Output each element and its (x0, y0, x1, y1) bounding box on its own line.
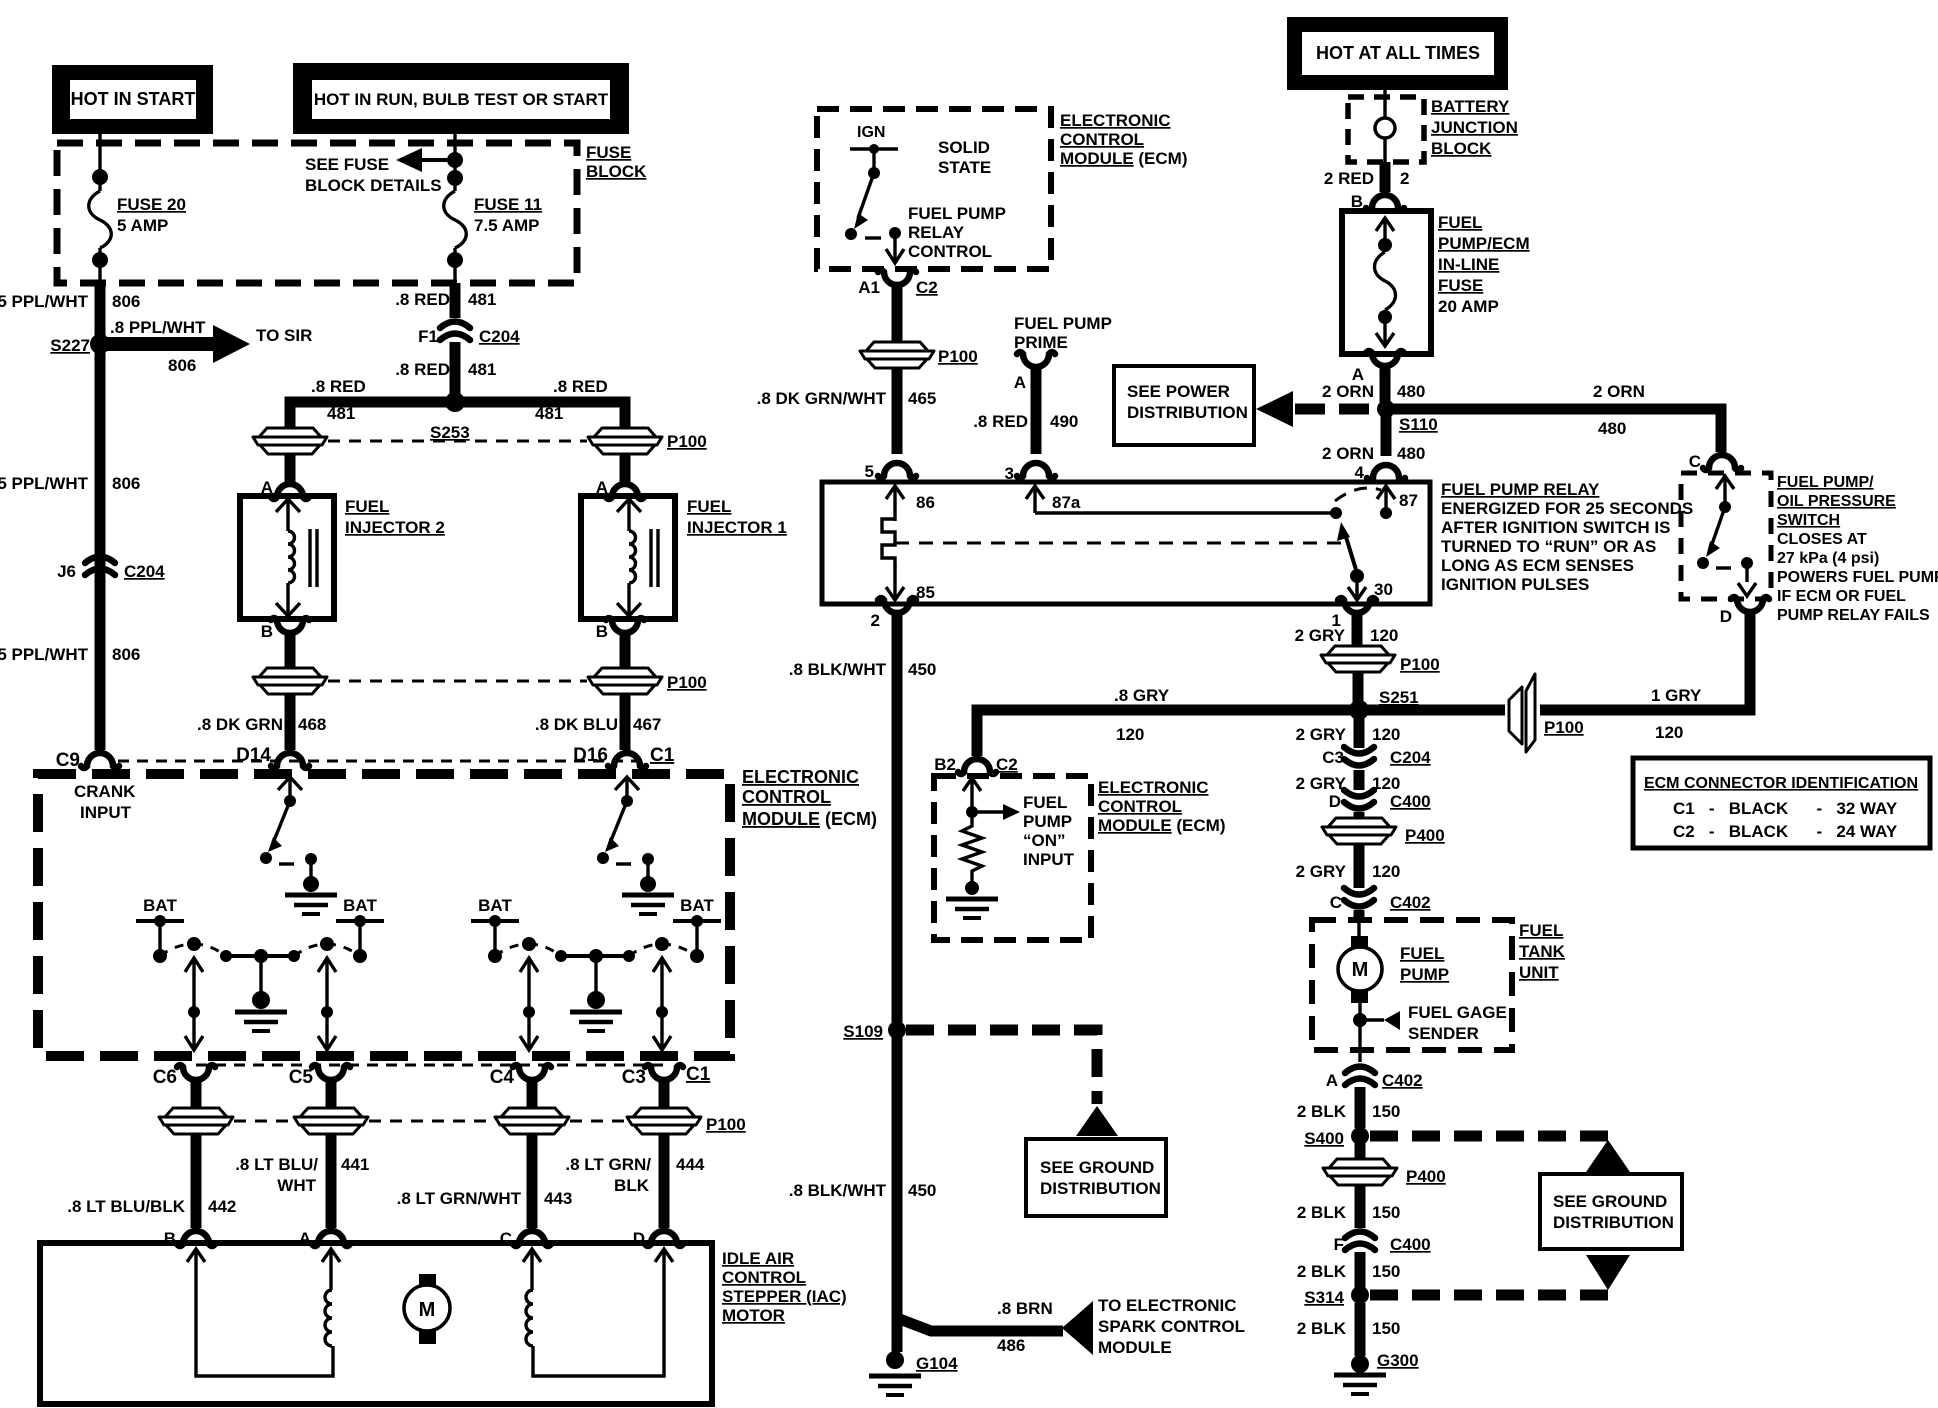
svg-text:27 kPa (4 psi): 27 kPa (4 psi) (1777, 550, 1879, 567)
wire .8 LT BLU/WHT 441 (326, 1134, 337, 1228)
see power distribution box (1114, 366, 1254, 445)
svg-text:2 GRY: 2 GRY (1296, 725, 1347, 744)
wire 2 BLK 150 (1355, 1087, 1366, 1128)
svg-text:C400: C400 (1390, 792, 1431, 811)
wire 2 BLK 150 (1355, 1252, 1366, 1288)
svg-text:SWITCH: SWITCH (1777, 512, 1840, 529)
IGN switch inside ECM (845, 124, 904, 263)
svg-text:TO ELECTRONIC: TO ELECTRONIC (1098, 1296, 1237, 1315)
see ground distribution box right (1540, 1174, 1682, 1249)
svg-text:5: 5 (865, 462, 874, 481)
svg-text:M: M (419, 1299, 436, 1321)
ground G104 (886, 1351, 904, 1369)
svg-text:806: 806 (112, 474, 140, 493)
BAT terminal 4 (673, 896, 721, 963)
bulkhead connector P100 vertical (1509, 674, 1584, 752)
svg-text:2 GRY: 2 GRY (1296, 862, 1347, 881)
svg-text:MODULE: MODULE (1098, 1338, 1172, 1357)
svg-text:.8 PPL/WHT: .8 PPL/WHT (110, 318, 206, 337)
svg-text:SPARK CONTROL: SPARK CONTROL (1098, 1317, 1245, 1336)
label FUSE BLOCK (586, 143, 647, 181)
fuel pump motor (1338, 922, 1382, 1003)
svg-text:120: 120 (1372, 725, 1400, 744)
svg-text:.8 RED: .8 RED (553, 377, 608, 396)
wire S253 horizontal (290, 402, 625, 430)
splice S314 (1351, 1286, 1369, 1304)
fuel pump relay box (822, 482, 1430, 604)
oil pressure switch contacts (1697, 476, 1756, 596)
svg-text:.8 LT BLU/: .8 LT BLU/ (235, 1155, 318, 1174)
wire 2 RED 2 (1380, 162, 1391, 192)
svg-text:P400: P400 (1406, 1167, 1446, 1186)
wire pin 1 to P100 (1352, 632, 1363, 646)
svg-text:.8 BLK/WHT: .8 BLK/WHT (789, 660, 887, 679)
svg-text:443: 443 (544, 1189, 572, 1208)
svg-text:UNIT: UNIT (1519, 963, 1559, 982)
svg-text:C400: C400 (1390, 1235, 1431, 1254)
bulkhead connector P100 pin 1 (1321, 646, 1395, 672)
wire .8 DK GRN/WHT 465 (892, 368, 903, 454)
svg-text:FUEL: FUEL (1438, 213, 1482, 232)
svg-text:LONG AS ECM SENSES: LONG AS ECM SENSES (1441, 556, 1634, 575)
svg-text:2 ORN: 2 ORN (1322, 382, 1374, 401)
svg-text:D16: D16 (573, 745, 608, 766)
ECM crank input dashed box (38, 774, 730, 1056)
pin C3 (645, 1065, 683, 1099)
see fuse block details arrow (420, 158, 455, 162)
svg-text:ELECTRONIC: ELECTRONIC (1060, 111, 1171, 130)
ground injector 1 driver (622, 895, 674, 914)
svg-text:FUEL PUMP: FUEL PUMP (908, 204, 1006, 223)
dashed wire S314 to ground distribution (1370, 1290, 1608, 1301)
svg-text:SEE FUSE: SEE FUSE (305, 155, 389, 174)
svg-text:C2: C2 (916, 278, 938, 297)
svg-text:POWERS FUEL PUMP: POWERS FUEL PUMP (1777, 569, 1938, 586)
svg-text:CONTROL: CONTROL (908, 242, 992, 261)
svg-text:806: 806 (112, 645, 140, 664)
svg-text:2 BLK: 2 BLK (1297, 1203, 1347, 1222)
pin C9 (81, 753, 119, 768)
svg-text:FUSE 20: FUSE 20 (117, 195, 186, 214)
svg-text:2: 2 (871, 611, 880, 630)
svg-text:FUEL PUMP/: FUEL PUMP/ (1777, 474, 1874, 491)
pin row dashed line bottom (196, 1064, 664, 1067)
svg-text:DISTRIBUTION: DISTRIBUTION (1040, 1179, 1161, 1198)
relay pin 87a branch (1026, 486, 1342, 519)
svg-text:D: D (1720, 607, 1732, 626)
svg-text:481: 481 (327, 404, 355, 423)
svg-text:PUMP/ECM: PUMP/ECM (1438, 234, 1530, 253)
svg-text:D: D (1329, 792, 1341, 811)
svg-text:SEE GROUND: SEE GROUND (1553, 1192, 1667, 1211)
bulkhead connector P100 right branch (588, 428, 662, 454)
svg-text:450: 450 (908, 660, 936, 679)
fuel injector 1 (581, 496, 675, 619)
svg-text:C: C (1330, 893, 1342, 912)
svg-text:S110: S110 (1399, 415, 1438, 434)
label FUEL PUMP/OIL PRESSURE SWITCH text (1777, 474, 1938, 624)
relay pin 1 (1338, 598, 1376, 632)
svg-text:F1: F1 (418, 327, 438, 346)
svg-text:CRANK: CRANK (74, 782, 136, 801)
bulkhead row P100 C4 (495, 1108, 569, 1134)
svg-text:1 GRY: 1 GRY (1651, 686, 1702, 705)
svg-text:P100: P100 (706, 1115, 746, 1134)
svg-text:P100: P100 (1544, 718, 1584, 737)
battery junction block dashed box (1348, 90, 1424, 162)
svg-text:S109: S109 (843, 1022, 883, 1041)
arrow up to see ground distribution right (1586, 1140, 1630, 1172)
oil switch pin D (1731, 597, 1769, 631)
header box HOT IN START (52, 65, 213, 134)
svg-text:.5 PPL/WHT: .5 PPL/WHT (0, 292, 89, 311)
svg-text:C: C (1689, 452, 1701, 471)
bulkhead connector P100 left branch (253, 428, 327, 454)
svg-text:C402: C402 (1390, 893, 1431, 912)
svg-text:450: 450 (908, 1181, 936, 1200)
svg-text:OIL PRESSURE: OIL PRESSURE (1777, 493, 1896, 510)
svg-text:P100: P100 (938, 347, 978, 366)
svg-text:D14: D14 (236, 745, 271, 766)
ground fuel pump on input (946, 899, 998, 918)
svg-text:FUEL PUMP: FUEL PUMP (1014, 314, 1112, 333)
svg-text:ECM CONNECTOR IDENTIFICATION: ECM CONNECTOR IDENTIFICATION (1644, 775, 1918, 792)
svg-text:.8 GRY: .8 GRY (1114, 686, 1170, 705)
wire 2 BLK 150 to G300 (1355, 1303, 1366, 1356)
oil switch pin C (1703, 455, 1741, 470)
wire from HOT IN RUN through fuse 11 (453, 134, 456, 191)
svg-text:MOTOR: MOTOR (722, 1306, 785, 1325)
svg-text:CONTROL: CONTROL (1060, 130, 1144, 149)
svg-text:FUEL: FUEL (687, 497, 731, 516)
splice S253 (445, 392, 465, 412)
BAT terminal 3 (471, 896, 519, 963)
relay pin 5 (878, 463, 916, 478)
svg-text:S400: S400 (1304, 1129, 1344, 1148)
injector 2 driver switch (260, 777, 319, 892)
coil drive line C5 (318, 958, 336, 1050)
svg-text:86: 86 (916, 493, 935, 512)
fuse F11 element (444, 191, 467, 248)
svg-text:C1: C1 (686, 1064, 711, 1085)
svg-text:87: 87 (1399, 491, 1418, 510)
svg-text:2 RED: 2 RED (1324, 169, 1374, 188)
svg-text:C204: C204 (1390, 748, 1431, 767)
svg-text:S253: S253 (430, 423, 470, 442)
svg-text:.8 LT BLU/BLK: .8 LT BLU/BLK (67, 1197, 185, 1216)
bulkhead connector P100 injector 2 (253, 668, 327, 694)
svg-text:G104: G104 (916, 1354, 958, 1373)
wire .8 DK BLU 467 (620, 694, 631, 750)
svg-text:BATTERY: BATTERY (1431, 97, 1510, 116)
svg-text:FUSE 11: FUSE 11 (474, 195, 542, 214)
bulkhead row P100 C3 (627, 1108, 701, 1134)
svg-text:P100: P100 (667, 432, 707, 451)
splice S227 (90, 334, 110, 354)
svg-text:480: 480 (1598, 419, 1626, 438)
relay actuation dashed line (895, 542, 1341, 545)
injector 1 pin B (606, 618, 644, 652)
wire .8 GRY 120 horizontal (977, 710, 1354, 756)
svg-text:444: 444 (676, 1155, 705, 1174)
svg-text:150: 150 (1372, 1262, 1400, 1281)
wire 2 GRY 120 (1354, 770, 1365, 790)
wire arrow TO SIR (106, 337, 214, 351)
wire .8 LT GRN/BLK 444 (659, 1134, 670, 1228)
ground injector 2 driver (285, 895, 337, 914)
svg-text:G300: G300 (1377, 1351, 1419, 1370)
splice S109 (888, 1021, 906, 1039)
svg-text:2 ORN: 2 ORN (1593, 382, 1645, 401)
wire pin 2 to G104 (892, 630, 903, 1352)
connector C C402 (1344, 888, 1374, 907)
IAC pin A (312, 1231, 350, 1246)
svg-text:2 GRY: 2 GRY (1295, 626, 1346, 645)
svg-text:.8 RED: .8 RED (395, 290, 450, 309)
svg-text:C6: C6 (153, 1067, 177, 1088)
splice S110 (1377, 400, 1395, 418)
fuel tank unit dashed box (1312, 920, 1512, 1050)
svg-text:20 AMP: 20 AMP (1438, 297, 1499, 316)
svg-text:4: 4 (1355, 463, 1365, 482)
IAC winding B-A (187, 1249, 340, 1376)
relay switch arm pin 30 (1337, 522, 1393, 600)
svg-text:INJECTOR 2: INJECTOR 2 (345, 518, 445, 537)
svg-text:A: A (1014, 373, 1026, 392)
connector F1 C204 (450, 283, 461, 318)
stepper commutator left: dashed arcs and bar (160, 937, 360, 1009)
relay pin 87 contact (1335, 486, 1418, 519)
svg-text:TO SIR: TO SIR (256, 326, 312, 345)
svg-text:C1: C1 (650, 745, 675, 766)
svg-text:CONTROL: CONTROL (722, 1268, 806, 1287)
svg-text:HOT AT ALL TIMES: HOT AT ALL TIMES (1316, 43, 1480, 63)
svg-text:.5 PPL/WHT: .5 PPL/WHT (0, 474, 89, 493)
dashed wire S400 to ground distribution (1370, 1131, 1608, 1142)
svg-text:442: 442 (208, 1197, 236, 1216)
svg-text:481: 481 (535, 404, 563, 423)
injector 2 pin B (271, 618, 309, 652)
svg-text:DISTRIBUTION: DISTRIBUTION (1553, 1213, 1674, 1232)
IAC pin D (645, 1231, 683, 1246)
ECM fuel pump on input dashed box (934, 776, 1091, 940)
svg-text:.8 RED: .8 RED (311, 377, 366, 396)
IAC winding C-D (523, 1249, 673, 1376)
svg-text:INPUT: INPUT (1023, 850, 1075, 869)
label FUEL PUMP RELAY text block (1441, 480, 1693, 594)
svg-text:PUMP RELAY FAILS: PUMP RELAY FAILS (1777, 607, 1930, 624)
svg-text:FUEL: FUEL (1023, 793, 1067, 812)
pin A1 connector C2 (878, 270, 916, 304)
svg-text:ELECTRONIC: ELECTRONIC (1098, 778, 1209, 797)
svg-text:7.5 AMP: 7.5 AMP (474, 216, 540, 235)
wire .8 BRN 486 branch (897, 1318, 1063, 1331)
svg-text:B: B (261, 622, 273, 641)
fuel pump/ECM in-line fuse box (1342, 211, 1431, 354)
relay pin 86 and coil (882, 486, 935, 602)
BAT terminal 1 (136, 896, 184, 963)
label ELECTRONIC CONTROL MODULE (ECM) top (1060, 111, 1188, 168)
svg-text:.8 BRN: .8 BRN (997, 1299, 1053, 1318)
svg-text:C5: C5 (289, 1067, 314, 1088)
injector 1 driver switch (597, 777, 656, 892)
dashed wire S109 to ground distribution (906, 1030, 1097, 1104)
svg-text:P100: P100 (1400, 655, 1440, 674)
svg-text:SENDER: SENDER (1408, 1024, 1479, 1043)
fuel pump/oil pressure switch dashed box (1681, 473, 1771, 599)
svg-text:BAT: BAT (478, 896, 512, 915)
connector C3 C204 (1344, 747, 1374, 766)
svg-text:806: 806 (168, 356, 196, 375)
IAC pin B (177, 1231, 215, 1246)
see ground distribution box middle (1026, 1139, 1166, 1216)
svg-text:481: 481 (468, 360, 496, 379)
svg-text:480: 480 (1397, 382, 1425, 401)
svg-text:FUEL: FUEL (345, 497, 389, 516)
wire .5 PPL/WHT 806 left column (95, 283, 106, 750)
svg-text:C204: C204 (124, 562, 165, 581)
svg-text:FUEL: FUEL (1400, 944, 1444, 963)
ground commutator right (570, 1012, 622, 1031)
svg-text:IGNITION PULSES: IGNITION PULSES (1441, 575, 1589, 594)
svg-text:C3: C3 (1322, 748, 1344, 767)
wire 1 GRY 120 from oil switch (1542, 625, 1750, 710)
svg-text:BLK: BLK (614, 1176, 650, 1195)
svg-text:.8 LT GRN/WHT: .8 LT GRN/WHT (397, 1189, 522, 1208)
svg-text:FUEL PUMP RELAY: FUEL PUMP RELAY (1441, 480, 1600, 499)
svg-text:J6: J6 (57, 562, 76, 581)
wire A1 to P100 (892, 298, 903, 342)
IAC pin C (513, 1231, 551, 1246)
coil drive line C4 (520, 958, 538, 1050)
label FUEL TANK UNIT (1519, 921, 1566, 982)
label ELECTRONIC CONTROL MODULE (ECM) right (1098, 778, 1226, 835)
svg-text:FUSE: FUSE (1438, 276, 1483, 295)
svg-text:2 ORN: 2 ORN (1322, 444, 1374, 463)
wire to injector 1 pin A (620, 454, 631, 482)
svg-text:150: 150 (1372, 1203, 1400, 1222)
label IDLE AIR CONTROL STEPPER (IAC) MOTOR (722, 1249, 847, 1325)
svg-text:87a: 87a (1052, 493, 1081, 512)
svg-text:BAT: BAT (143, 896, 177, 915)
wire from HOT IN START through fuse 20 (98, 134, 101, 191)
relay pin 2 (878, 598, 916, 632)
svg-text:M: M (1352, 959, 1369, 981)
svg-text:2 BLK: 2 BLK (1297, 1262, 1347, 1281)
connector D C400 (1344, 790, 1374, 809)
pin D14 (271, 753, 309, 768)
pin C5 (312, 1065, 350, 1099)
svg-text:STATE: STATE (938, 158, 991, 177)
bulkhead connector P100 (860, 342, 934, 368)
svg-text:MODULE (ECM): MODULE (ECM) (1060, 149, 1188, 168)
svg-text:TANK: TANK (1519, 942, 1566, 961)
wire .8 LT BLU/BLK 442 (191, 1134, 202, 1228)
svg-text:IDLE AIR: IDLE AIR (722, 1249, 794, 1268)
pin D16 (608, 753, 646, 768)
wire 2 GRY 120 (1354, 844, 1365, 888)
ECM fuel pump relay control dashed box (817, 109, 1051, 269)
svg-text:.8 DK GRN/WHT: .8 DK GRN/WHT (757, 389, 887, 408)
splice S251 (1349, 700, 1369, 720)
label BATTERY JUNCTION BLOCK (1431, 97, 1518, 158)
ECM connector identification box (1633, 758, 1930, 848)
svg-text:INPUT: INPUT (80, 803, 132, 822)
svg-text:CLOSES AT: CLOSES AT (1777, 531, 1867, 548)
bulkhead row P100 C5 (294, 1108, 368, 1134)
bulkhead connector P400 lower (1355, 1143, 1366, 1160)
wire 2 ORN 480 to oil pressure switch (1393, 409, 1721, 452)
wire to splice S253 (450, 342, 461, 402)
svg-text:JUNCTION: JUNCTION (1431, 118, 1518, 137)
svg-text:P100: P100 (667, 673, 707, 692)
svg-text:FUSE: FUSE (586, 143, 631, 162)
svg-text:STEPPER (IAC): STEPPER (IAC) (722, 1287, 847, 1306)
svg-text:RELAY: RELAY (908, 223, 965, 242)
svg-text:BAT: BAT (343, 896, 377, 915)
svg-text:BLOCK DETAILS: BLOCK DETAILS (305, 176, 442, 195)
svg-text:BLOCK: BLOCK (1431, 139, 1492, 158)
svg-text:DISTRIBUTION: DISTRIBUTION (1127, 403, 1248, 422)
svg-text:C4: C4 (490, 1067, 515, 1088)
svg-text:150: 150 (1372, 1102, 1400, 1121)
pin C4 (513, 1065, 551, 1099)
svg-text:F: F (1334, 1235, 1344, 1254)
svg-text:A1: A1 (858, 278, 880, 297)
svg-text:120: 120 (1116, 725, 1144, 744)
connector A C402 (1345, 1067, 1375, 1086)
svg-text:2 BLK: 2 BLK (1297, 1319, 1347, 1338)
svg-text:441: 441 (341, 1155, 369, 1174)
svg-text:806: 806 (112, 292, 140, 311)
svg-text:S251: S251 (1379, 688, 1419, 707)
svg-text:2: 2 (1400, 169, 1409, 188)
svg-text:HOT IN RUN, BULB TEST OR START: HOT IN RUN, BULB TEST OR START (314, 90, 609, 109)
svg-text:PUMP: PUMP (1023, 812, 1072, 831)
svg-text:5 AMP: 5 AMP (117, 216, 168, 235)
svg-text:PUMP: PUMP (1400, 965, 1449, 984)
svg-text:SOLID: SOLID (938, 138, 990, 157)
svg-text:BLOCK: BLOCK (586, 162, 647, 181)
fuel pump on input circuit (962, 778, 1020, 895)
svg-text:480: 480 (1397, 444, 1425, 463)
wire to injector 2 pin A (285, 454, 296, 482)
svg-text:INJECTOR 1: INJECTOR 1 (687, 518, 787, 537)
idle air control stepper motor box (40, 1243, 712, 1404)
svg-text:IF ECM OR FUEL: IF ECM OR FUEL (1777, 588, 1906, 605)
label FUEL PUMP ON INPUT (1023, 793, 1075, 869)
svg-text:SEE GROUND: SEE GROUND (1040, 1158, 1154, 1177)
svg-text:.8 BLK/WHT: .8 BLK/WHT (789, 1181, 887, 1200)
svg-text:FUEL: FUEL (1519, 921, 1563, 940)
pin B2 connector C2 (958, 759, 996, 774)
wire to splice S251 (1353, 672, 1364, 706)
splice S400 (1351, 1127, 1369, 1145)
svg-text:120: 120 (1370, 626, 1398, 645)
svg-text:B: B (596, 622, 608, 641)
svg-text:2 GRY: 2 GRY (1296, 774, 1347, 793)
svg-text:CONTROL: CONTROL (1098, 797, 1182, 816)
bulkhead row P100 C6 (159, 1108, 233, 1134)
svg-text:150: 150 (1372, 1319, 1400, 1338)
svg-text:IGN: IGN (857, 124, 885, 141)
svg-text:AFTER IGNITION SWITCH IS: AFTER IGNITION SWITCH IS (1441, 518, 1671, 537)
label FUEL PUMP/ECM IN-LINE FUSE 20 AMP (1438, 213, 1530, 316)
svg-text:C2 - BLACK - 24 WAY: C2 - BLACK - 24 WAY (1673, 822, 1898, 841)
svg-text:P400: P400 (1405, 826, 1445, 845)
svg-text:ELECTRONIC: ELECTRONIC (742, 767, 859, 787)
wire 2 GRY 120 below S251 (1354, 714, 1365, 748)
